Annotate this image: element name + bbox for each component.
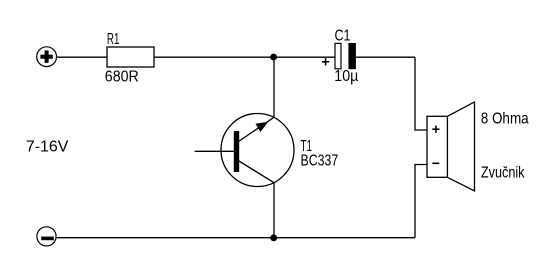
svg-text:Zvučnik: Zvučnik [481, 165, 525, 182]
svg-text:BC337: BC337 [301, 152, 339, 169]
svg-text:C1: C1 [335, 28, 351, 45]
svg-text:7-16V: 7-16V [26, 139, 69, 156]
svg-text:680R: 680R [105, 69, 139, 86]
svg-text:10µ: 10µ [334, 68, 358, 85]
svg-text:R1: R1 [107, 31, 120, 48]
svg-text:8 Ohma: 8 Ohma [481, 110, 529, 127]
